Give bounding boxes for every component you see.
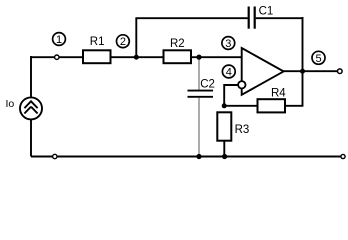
wire: main horizontal net from source to op-amp non-inverting input, y=57 — [31, 56, 242, 58]
svg-text:R1: R1 — [90, 36, 105, 48]
wire: C2 grey branch lower segment to ground rail — [198, 98, 200, 157]
node 5 — [312, 51, 325, 65]
terminal: input port open circle bottom on ground rail — [53, 154, 57, 158]
svg-text:1: 1 — [56, 34, 62, 46]
resistor R3 — [217, 112, 231, 140]
wire: right vertical from top wire down through output node to R4, x=302.5 — [302, 17, 304, 106]
terminal: input port open circle on node 1 — [55, 55, 59, 59]
junction at C2 top — [196, 55, 201, 60]
terminal: output port open circle top — [338, 69, 343, 74]
svg-text:3: 3 — [225, 38, 231, 50]
terminal: output port open circle bottom on ground rail — [341, 154, 345, 158]
resistor R1 — [83, 50, 111, 63]
svg-text:4: 4 — [226, 67, 232, 79]
resistor R4 — [258, 99, 286, 112]
capacitor C1 — [249, 7, 255, 29]
wire: inverting input L-shaped lead up from junction then right to op-amp bubble — [224, 85, 239, 106]
op-amp inverting input bubble (node 4 terminal) — [238, 81, 245, 88]
junction at node 2 — [134, 55, 139, 60]
svg-text:C1: C1 — [259, 5, 274, 17]
svg-text:R3: R3 — [235, 124, 250, 136]
node 2 — [117, 35, 130, 48]
junction at R3/R4 inverting input — [222, 103, 227, 108]
svg-text:2: 2 — [120, 36, 126, 48]
wire: bottom ground rail, y=156.5 — [31, 156, 342, 158]
junction at output node — [300, 69, 305, 74]
wire: C2 grey branch upper segment — [198, 57, 200, 90]
wire: top feedback wire right segment from C1, y=18 — [256, 17, 304, 19]
svg-text:R2: R2 — [170, 38, 185, 50]
wire: top feedback wire left segment to C1, y=18 — [135, 17, 247, 19]
junction at C2 bottom on ground rail — [196, 154, 201, 159]
current source Io — [20, 97, 42, 119]
wire: left vertical branch through current source, x=31 — [30, 56, 32, 157]
wire: R4 left lead to inverting-input junction — [224, 105, 257, 107]
wire: R4 right lead to right vertical — [285, 105, 303, 107]
node 1 — [53, 33, 66, 46]
wire: R3 bottom lead to ground rail — [223, 141, 225, 157]
svg-text:Io: Io — [6, 98, 15, 110]
node 3 — [222, 37, 235, 50]
junction at R3 bottom on ground rail — [222, 154, 227, 159]
wire: vertical from node 2 up to feedback top wire, x=136.3 — [135, 18, 137, 57]
op-amp U1 — [242, 48, 284, 95]
svg-text:R4: R4 — [271, 87, 286, 99]
node 4 — [222, 65, 235, 78]
svg-text:5: 5 — [315, 53, 321, 65]
resistor R2 — [164, 50, 192, 63]
capacitor C2 — [188, 91, 214, 97]
svg-text:C2: C2 — [200, 78, 215, 90]
wire: op-amp output wire to terminal, y=71.2 — [283, 70, 340, 72]
